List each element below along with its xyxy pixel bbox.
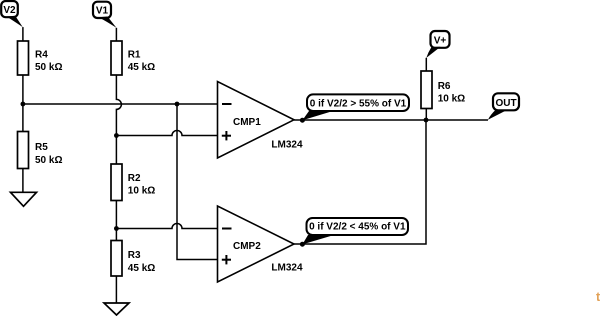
wire V+ to R6 — [425, 58, 427, 71]
svg-text:R2: R2 — [128, 173, 141, 184]
resistor R4 — [18, 41, 63, 75]
output wire CMP2 to OUT node — [294, 120, 426, 244]
svg-text:R4: R4 — [35, 49, 48, 60]
svg-text:0 if V2/2 < 45% of V1: 0 if V2/2 < 45% of V1 — [309, 222, 406, 233]
svg-text:CMP2: CMP2 — [233, 241, 261, 252]
svg-text:R5: R5 — [35, 142, 48, 153]
wire V1 to R1 — [115, 28, 117, 41]
wire node B to CMP1 non-inverting input (hop at x=177) — [116, 131, 217, 136]
output wire CMP1 to OUT — [294, 119, 488, 121]
wire V2 to R4 — [22, 27, 24, 41]
node OUT flag — [488, 93, 519, 119]
node A junction dot — [21, 102, 26, 107]
svg-text:LM324: LM324 — [271, 263, 303, 274]
svg-text:CMP1: CMP1 — [233, 117, 261, 128]
wire R5 to ground — [22, 169, 24, 193]
wire R6 to OUT node — [425, 109, 427, 121]
resistor R2 — [111, 164, 155, 201]
svg-text:50 kΩ: 50 kΩ — [35, 62, 62, 73]
node D junction dot — [175, 102, 180, 107]
wire node A to CMP1 inverting input — [23, 103, 218, 105]
wire R4 to node A — [22, 75, 24, 104]
wire R3 to ground — [115, 276, 117, 303]
svg-text:45 kΩ: 45 kΩ — [128, 263, 155, 274]
wire R2 to R3 — [115, 201, 117, 241]
junction dot at CMP2 output — [300, 242, 305, 247]
svg-text:V1: V1 — [96, 6, 109, 17]
wire node A to R5 — [22, 104, 24, 132]
wire node C to CMP2 inverting input (hop at x=177) — [116, 224, 217, 229]
svg-text:LM324: LM324 — [271, 140, 303, 151]
resistor R5 — [18, 132, 63, 169]
svg-text:50 kΩ: 50 kΩ — [35, 155, 62, 166]
wire R1 to R2 with hop over node-A wire — [116, 75, 121, 164]
svg-text:R3: R3 — [128, 250, 141, 261]
resistor R6 — [421, 71, 465, 109]
op-amp CMP1 — [218, 82, 303, 159]
svg-text:R1: R1 — [128, 49, 141, 60]
node C junction dot — [114, 226, 119, 231]
annotation "0 if V2/2 > 55% of V1" — [302, 94, 409, 120]
op-amp CMP2 — [218, 206, 303, 282]
ground (bottom) — [104, 303, 129, 315]
svg-text:V2: V2 — [3, 5, 16, 16]
junction dot at CMP1 output — [300, 118, 305, 123]
annotation "0 if V2/2 < 45% of V1" — [302, 218, 408, 244]
svg-text:t: t — [596, 290, 600, 304]
resistor R1 — [111, 41, 155, 75]
wire node D down to CMP2 non-inverting input — [177, 104, 218, 260]
svg-text:R6: R6 — [438, 81, 451, 92]
svg-text:0 if V2/2 > 55% of V1: 0 if V2/2 > 55% of V1 — [310, 98, 407, 109]
svg-text:45 kΩ: 45 kΩ — [128, 62, 155, 73]
node B junction dot — [114, 133, 119, 138]
resistor R3 — [111, 241, 155, 277]
node V2 flag — [1, 1, 23, 27]
ground (left) — [11, 192, 37, 206]
svg-text:10 kΩ: 10 kΩ — [128, 186, 155, 197]
node V1 flag — [93, 2, 116, 28]
svg-text:V+: V+ — [434, 35, 447, 46]
node V+ flag — [426, 31, 449, 58]
svg-text:10 kΩ: 10 kΩ — [438, 94, 465, 105]
junction dot at R6 / OUT node — [424, 118, 429, 123]
svg-text:OUT: OUT — [495, 98, 516, 109]
